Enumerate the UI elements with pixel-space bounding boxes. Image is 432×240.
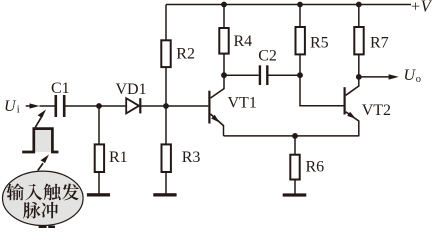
wire VT1 collector to C2 <box>224 74 259 76</box>
wire R1 top lead <box>98 106 100 144</box>
svg-text:VT1: VT1 <box>228 95 257 112</box>
wire R6 bottom lead <box>294 180 296 194</box>
svg-text:VD1: VD1 <box>116 81 147 98</box>
wire coupling to VT2 base <box>300 75 344 106</box>
wire C2 to R5 node <box>269 74 301 76</box>
node junction VT1 collector <box>221 72 227 78</box>
wire R1 bottom lead <box>98 172 100 193</box>
ground R1 <box>87 193 110 196</box>
node junction top rail / R5 <box>297 2 303 8</box>
trigger pulse waveform <box>34 129 53 152</box>
node junction R1 <box>96 103 102 109</box>
wire R5 bottom lead <box>299 54 301 75</box>
wire R5 top lead <box>299 5 301 28</box>
cropped caption marks <box>39 226 47 228</box>
text 脉冲 <box>23 202 58 219</box>
svg-text:R3: R3 <box>182 149 201 166</box>
svg-text:VT2: VT2 <box>362 102 391 119</box>
wire top supply rail <box>166 4 411 6</box>
wire VD1 to node B1 <box>141 105 166 107</box>
wire R7 bottom lead <box>358 54 360 77</box>
node junction R5/C2 <box>297 72 303 78</box>
node junction R6 <box>292 133 298 139</box>
wire R2 top lead <box>165 5 167 41</box>
wire node to VD1 <box>99 105 126 107</box>
svg-text:R1: R1 <box>109 149 128 166</box>
text 输入触发 <box>7 183 79 200</box>
svg-text:V: V <box>421 0 432 15</box>
node junction R2/R3/base <box>163 103 169 109</box>
callout ellipse 输入触发脉冲 <box>3 171 84 225</box>
node junction top rail / R7 <box>356 2 362 8</box>
svg-text:+: + <box>411 0 420 15</box>
output wire and arrow <box>359 76 390 78</box>
ground R6 <box>283 193 307 196</box>
capacitor C1 <box>54 95 57 117</box>
diode VD1 <box>126 98 139 113</box>
wire input to C1 <box>40 105 55 107</box>
transistor VT1 <box>208 75 224 136</box>
resistor R2 <box>161 40 170 67</box>
svg-text:R2: R2 <box>176 46 195 63</box>
svg-text:o: o <box>416 74 421 85</box>
wire node to VT1 base <box>166 105 208 107</box>
wire R4 bottom lead <box>223 54 225 76</box>
wire C1 to R1 node <box>66 105 100 107</box>
capacitor C2 <box>259 65 261 85</box>
wire R4 top lead <box>223 5 225 29</box>
resistor R4 <box>219 28 228 54</box>
svg-text:C1: C1 <box>51 80 70 97</box>
input arrow <box>26 105 32 107</box>
resistor R1 <box>95 144 104 172</box>
svg-text:U: U <box>4 98 17 115</box>
svg-text:R4: R4 <box>234 33 253 50</box>
svg-text:R5: R5 <box>310 35 329 52</box>
wire R2 bottom lead <box>165 67 167 106</box>
svg-text:i: i <box>17 105 20 116</box>
svg-text:C2: C2 <box>258 47 277 64</box>
svg-text:R7: R7 <box>370 35 389 52</box>
wire R3 bottom lead <box>165 172 167 193</box>
transistor VT2 <box>344 77 359 136</box>
arrow pulse to wire <box>35 117 41 127</box>
resistor R7 <box>354 27 363 54</box>
resistor R3 <box>162 144 171 172</box>
wire R7 top lead <box>358 5 360 28</box>
node junction VT2 collector / output <box>356 74 362 80</box>
ground R3 <box>153 193 176 196</box>
wire R6 top lead <box>294 136 296 155</box>
resistor R6 <box>290 155 299 180</box>
svg-text:U: U <box>404 67 417 84</box>
wire emitters bus <box>224 135 359 137</box>
wire R3 top lead <box>165 106 167 144</box>
svg-text:R6: R6 <box>306 159 325 176</box>
arrow ellipse to pulse <box>38 163 43 170</box>
node junction top rail / R4 <box>221 2 227 8</box>
resistor R5 <box>296 27 305 54</box>
